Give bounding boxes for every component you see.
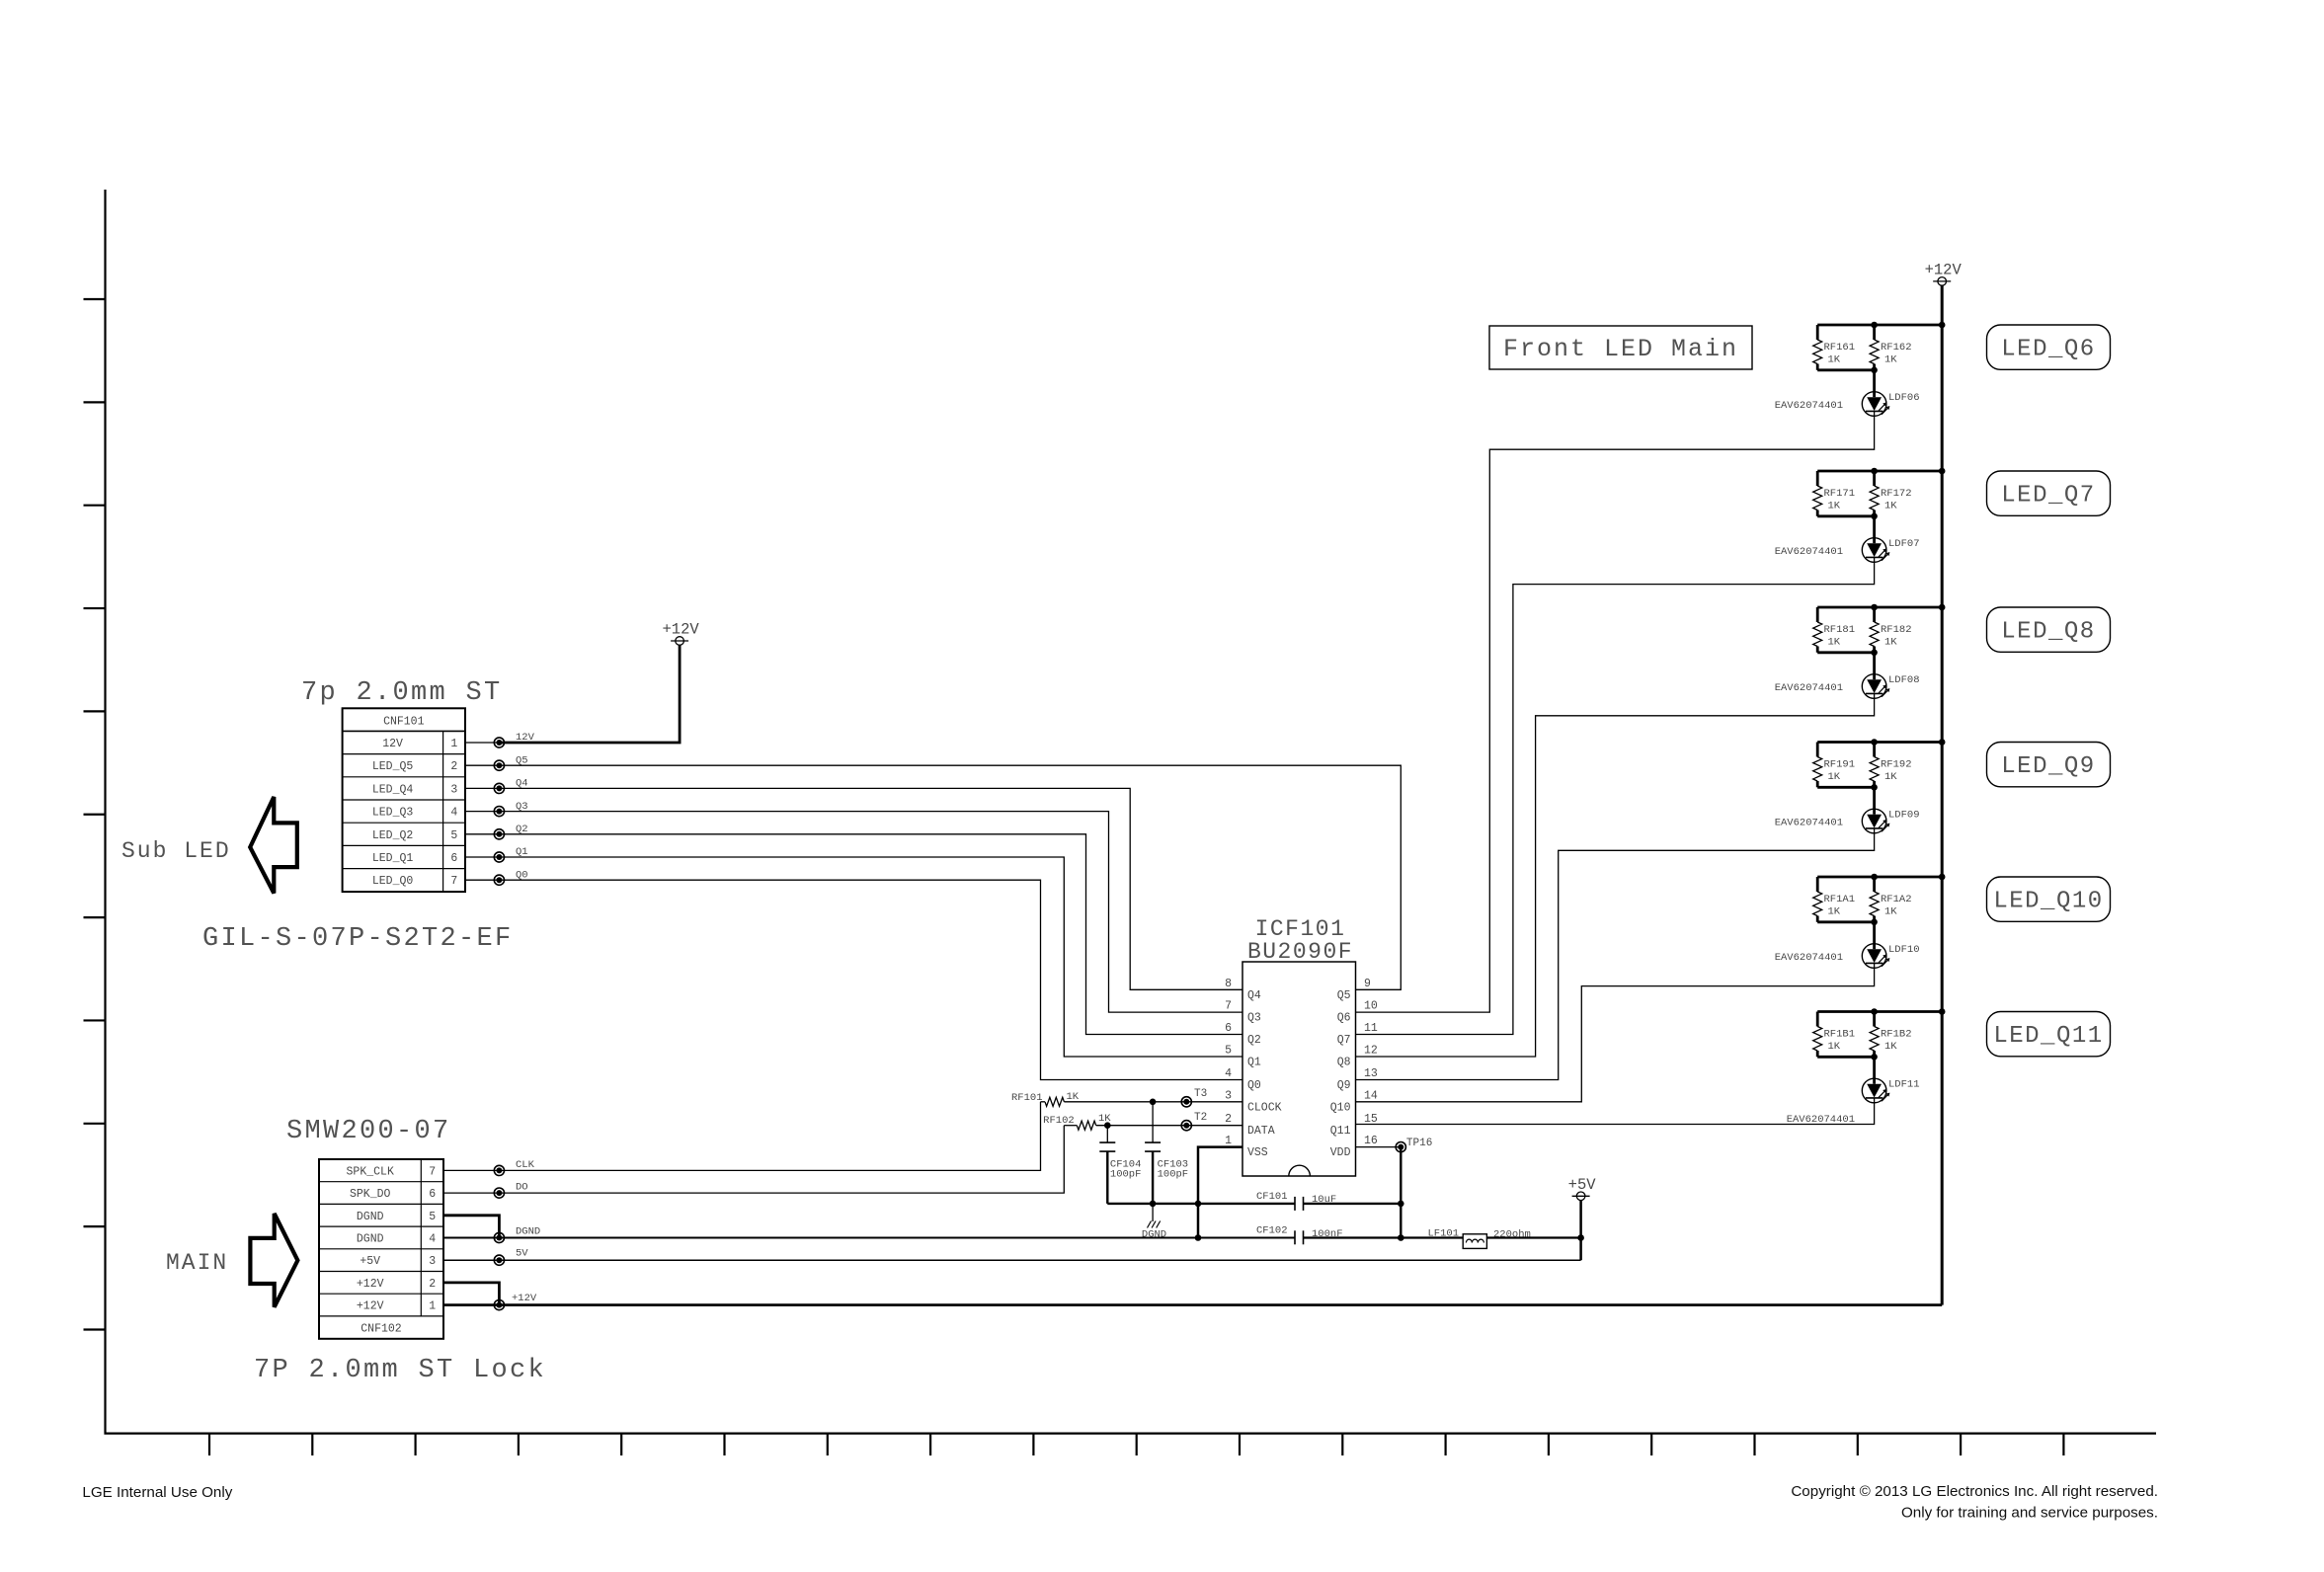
wire DGND [443, 1226, 1581, 1243]
svg-text:DGND: DGND [357, 1233, 384, 1246]
svg-text:Q6: Q6 [1337, 1012, 1351, 1025]
svg-text:Q1: Q1 [1247, 1057, 1261, 1069]
svg-text:LED_Q4: LED_Q4 [372, 783, 414, 796]
IC ICF101 BU2090F [1225, 916, 1378, 1176]
svg-text:DO: DO [516, 1182, 528, 1194]
capacitor CF104 100pF [1099, 1126, 1141, 1204]
svg-text:EAV62074401: EAV62074401 [1775, 546, 1843, 558]
svg-text:2: 2 [1225, 1113, 1232, 1126]
svg-text:LED_Q11: LED_Q11 [1993, 1023, 2103, 1050]
wire bus bar block LED_Q10 [1817, 874, 1945, 925]
svg-text:1: 1 [429, 1300, 436, 1313]
svg-text:16: 16 [1364, 1135, 1378, 1147]
svg-text:14: 14 [1364, 1089, 1378, 1102]
svg-text:LF101: LF101 [1427, 1227, 1459, 1239]
ground DGND [1142, 1204, 1166, 1241]
node LED_Q6 [1987, 325, 2111, 369]
svg-text:Only for training and service: Only for training and service purposes. [1901, 1505, 2158, 1522]
test point T2 [1181, 1112, 1207, 1131]
power +12V (CNF101 pin 1) [465, 621, 699, 748]
LED LDF07 [1775, 516, 1920, 563]
svg-text:1K: 1K [1884, 1041, 1897, 1053]
power +5V [1568, 1176, 1597, 1260]
svg-text:Q7: Q7 [1337, 1034, 1351, 1047]
resistor RF171 1K [1813, 471, 1855, 516]
svg-text:2: 2 [429, 1278, 436, 1291]
svg-text:Q1: Q1 [516, 846, 528, 858]
svg-text:1K: 1K [1884, 501, 1897, 512]
wire Q3 [465, 801, 1242, 1012]
svg-text:DGND: DGND [516, 1226, 540, 1238]
svg-text:Q9: Q9 [1337, 1079, 1351, 1092]
inductor LF101 220ohm [1427, 1227, 1583, 1248]
wire VSS pin1 [1195, 1147, 1242, 1241]
node LED_Q8 [1987, 607, 2111, 652]
svg-text:5V: 5V [516, 1248, 528, 1260]
svg-text:LDF06: LDF06 [1888, 392, 1920, 404]
svg-text:EAV62074401: EAV62074401 [1775, 818, 1843, 829]
svg-text:1: 1 [450, 738, 457, 750]
svg-text:4: 4 [429, 1233, 436, 1246]
svg-text:3: 3 [429, 1255, 436, 1268]
svg-text:100pF: 100pF [1110, 1169, 1142, 1181]
svg-text:LED_Q5: LED_Q5 [372, 760, 414, 773]
svg-text:RF182: RF182 [1881, 624, 1912, 636]
svg-text:4: 4 [1225, 1067, 1232, 1080]
svg-text:1K: 1K [1828, 771, 1841, 783]
svg-text:RF171: RF171 [1824, 488, 1856, 500]
wire Q5 [465, 754, 1401, 989]
wire CLK [443, 1102, 1041, 1176]
svg-text:VDD: VDD [1330, 1146, 1351, 1159]
svg-text:CF101: CF101 [1256, 1191, 1288, 1203]
wire bus bar block LED_Q6 [1817, 322, 1945, 373]
svg-text:1K: 1K [1884, 906, 1897, 918]
svg-text:TP16: TP16 [1406, 1138, 1432, 1149]
svg-text:+12V: +12V [357, 1278, 384, 1291]
svg-text:RF1A1: RF1A1 [1824, 894, 1856, 905]
wire bus bar block LED_Q8 [1817, 604, 1945, 656]
svg-text:4: 4 [450, 807, 457, 820]
svg-text:7: 7 [429, 1165, 436, 1178]
svg-text:1K: 1K [1884, 354, 1897, 366]
svg-text:1K: 1K [1828, 501, 1841, 512]
connector CNF101 7p 2.0mm ST [343, 708, 465, 892]
wire LDF06 cathode to IC [1356, 411, 1875, 1012]
svg-text:+12V: +12V [662, 621, 699, 639]
svg-text:LGE Internal Use Only: LGE Internal Use Only [82, 1484, 232, 1501]
svg-text:Q11: Q11 [1330, 1125, 1351, 1138]
svg-text:LDF08: LDF08 [1888, 674, 1920, 686]
svg-text:Front LED Main: Front LED Main [1503, 335, 1738, 363]
svg-text:+5V: +5V [1568, 1176, 1597, 1194]
svg-text:6: 6 [1225, 1022, 1232, 1035]
wire LDF10 cathode to IC [1356, 963, 1875, 1101]
resistor RF1A1 1K [1813, 877, 1855, 922]
svg-text:LED_Q1: LED_Q1 [372, 852, 414, 865]
svg-text:VSS: VSS [1247, 1146, 1268, 1159]
svg-text:DGND: DGND [357, 1211, 384, 1223]
capacitor CF102 100nF [1256, 1225, 1343, 1245]
svg-text:100pF: 100pF [1158, 1169, 1189, 1181]
label SMW200-07 [286, 1117, 451, 1146]
svg-text:13: 13 [1364, 1067, 1378, 1080]
arrow Sub LED [121, 797, 297, 894]
wire +12V [443, 1293, 1942, 1310]
svg-text:220ohm: 220ohm [1493, 1228, 1531, 1240]
svg-text:CF102: CF102 [1256, 1225, 1288, 1237]
svg-text:12V: 12V [382, 738, 403, 750]
svg-text:1K: 1K [1884, 637, 1897, 649]
connector CNF102 SMW200-07 [319, 1159, 443, 1339]
resistor RF181 1K [1813, 607, 1855, 653]
svg-text:1K: 1K [1828, 1041, 1841, 1053]
svg-text:7: 7 [1225, 1000, 1232, 1013]
svg-text:CNF102: CNF102 [361, 1322, 402, 1335]
svg-text:1K: 1K [1884, 771, 1897, 783]
svg-text:Q4: Q4 [516, 778, 528, 790]
svg-text:3: 3 [450, 783, 457, 796]
svg-text:6: 6 [429, 1188, 436, 1201]
svg-text:5: 5 [429, 1211, 436, 1223]
svg-text:+12V: +12V [1925, 261, 1963, 278]
svg-text:LED_Q0: LED_Q0 [372, 875, 414, 888]
svg-text:12V: 12V [516, 732, 535, 744]
resistor RF1A2 1K [1870, 877, 1911, 922]
wire +12V jog pin2 [443, 1283, 499, 1305]
svg-text:RF162: RF162 [1881, 342, 1912, 354]
wire DATA [1096, 1122, 1242, 1129]
svg-text:CLOCK: CLOCK [1247, 1101, 1282, 1114]
svg-text:LED_Q8: LED_Q8 [2001, 619, 2095, 646]
wire bus bar block LED_Q9 [1817, 739, 1945, 790]
svg-text:LDF11: LDF11 [1888, 1079, 1920, 1091]
LED LDF08 [1775, 653, 1920, 699]
svg-text:Q0: Q0 [516, 869, 528, 881]
note copyright [1791, 1483, 2158, 1522]
svg-text:RF102: RF102 [1043, 1115, 1075, 1127]
svg-text:EAV62074401: EAV62074401 [1775, 400, 1843, 412]
svg-text:Q5: Q5 [1337, 989, 1351, 1002]
wire CLOCK [1064, 1099, 1242, 1106]
svg-text:3: 3 [1225, 1089, 1232, 1102]
note Front LED Main [1489, 326, 1752, 369]
svg-text:Q4: Q4 [1247, 989, 1261, 1002]
LED LDF09 [1775, 787, 1920, 833]
svg-text:LED_Q6: LED_Q6 [2001, 337, 2095, 363]
svg-text:LED_Q3: LED_Q3 [372, 807, 414, 820]
resistor RF1B1 1K [1813, 1012, 1855, 1058]
svg-text:RF1A2: RF1A2 [1881, 894, 1912, 905]
svg-text:5: 5 [1225, 1045, 1232, 1058]
svg-text:RF1B2: RF1B2 [1881, 1029, 1912, 1041]
svg-text:RF161: RF161 [1824, 342, 1856, 354]
resistor RF101 1K [1011, 1091, 1080, 1106]
resistor RF162 1K [1870, 325, 1911, 370]
svg-text:1: 1 [1225, 1135, 1232, 1147]
svg-text:LDF07: LDF07 [1888, 538, 1920, 550]
svg-text:Q2: Q2 [1247, 1034, 1261, 1047]
svg-text:LED_Q10: LED_Q10 [1993, 889, 2103, 915]
wire LDF11 cathode to IC pin15 [1356, 1098, 1875, 1125]
svg-text:Q8: Q8 [1337, 1057, 1351, 1069]
svg-text:1K: 1K [1828, 906, 1841, 918]
resistor RF182 1K [1870, 607, 1911, 653]
wire Q2 [465, 824, 1242, 1035]
svg-text:7: 7 [450, 875, 457, 888]
svg-text:T2: T2 [1194, 1112, 1207, 1124]
resistor RF172 1K [1870, 471, 1911, 516]
wire Q1 [465, 846, 1242, 1057]
svg-text:1K: 1K [1828, 637, 1841, 649]
resistor RF192 1K [1870, 743, 1911, 788]
wire LDF07 cathode to IC [1356, 557, 1875, 1034]
wire Q4 [465, 778, 1242, 990]
resistor RF161 1K [1813, 325, 1855, 370]
label 7P 2.0mm ST Lock [254, 1356, 546, 1385]
svg-text:LDF09: LDF09 [1888, 810, 1920, 822]
svg-text:Q5: Q5 [516, 754, 528, 766]
svg-text:Sub LED: Sub LED [121, 838, 231, 864]
svg-text:+5V: +5V [360, 1255, 380, 1268]
svg-text:EAV62074401: EAV62074401 [1787, 1114, 1855, 1126]
svg-text:5: 5 [450, 829, 457, 842]
svg-text:SPK_CLK: SPK_CLK [347, 1165, 394, 1178]
node LED_Q10 [1987, 877, 2111, 921]
svg-text:9: 9 [1364, 978, 1371, 990]
svg-text:GIL-S-07P-S2T2-EF: GIL-S-07P-S2T2-EF [202, 924, 514, 954]
resistor RF191 1K [1813, 743, 1855, 788]
wire LDF08 cathode to IC [1356, 693, 1875, 1057]
label GIL-S-07P-S2T2-EF [202, 924, 514, 954]
svg-text:Q0: Q0 [1247, 1079, 1261, 1092]
svg-text:1K: 1K [1828, 354, 1841, 366]
wire bus bar block LED_Q11 [1817, 1008, 1945, 1060]
resistor RF102 1K [1043, 1113, 1111, 1130]
wire DGND jog pin5 [443, 1216, 499, 1238]
wire LDF09 cathode to IC [1356, 828, 1875, 1080]
svg-text:100nF: 100nF [1312, 1228, 1343, 1240]
svg-text:BU2090F: BU2090F [1247, 939, 1353, 965]
LED LDF11 [1787, 1057, 1920, 1126]
svg-text:1K: 1K [1067, 1091, 1080, 1103]
wire DO [443, 1126, 1064, 1199]
svg-text:SPK_DO: SPK_DO [350, 1188, 391, 1201]
svg-text:RF181: RF181 [1824, 624, 1856, 636]
svg-text:RF101: RF101 [1011, 1092, 1043, 1104]
power +12V rail [1925, 261, 1963, 1304]
note LGE Internal Use Only [82, 1484, 232, 1501]
svg-text:RF1B1: RF1B1 [1824, 1029, 1856, 1041]
node LED_Q9 [1987, 743, 2111, 787]
svg-text:SMW200-07: SMW200-07 [286, 1117, 451, 1146]
svg-text:+12V: +12V [357, 1300, 384, 1313]
svg-text:6: 6 [450, 852, 457, 865]
wire bus bar block LED_Q7 [1817, 468, 1945, 519]
test point TP16 [1356, 1138, 1433, 1241]
svg-text:LDF10: LDF10 [1888, 944, 1920, 956]
svg-text:CNF101: CNF101 [383, 716, 425, 729]
svg-text:RF192: RF192 [1881, 759, 1912, 771]
svg-text:2: 2 [450, 760, 457, 773]
resistor RF1B2 1K [1870, 1012, 1911, 1058]
arrow MAIN [166, 1214, 297, 1307]
svg-text:RF172: RF172 [1881, 488, 1912, 500]
svg-text:DATA: DATA [1247, 1125, 1275, 1138]
test point T3 [1181, 1088, 1207, 1107]
capacitor CF101 10uF [1107, 1191, 1403, 1211]
svg-text:LED_Q7: LED_Q7 [2001, 483, 2095, 510]
svg-text:DGND: DGND [1142, 1229, 1166, 1241]
wire 5V [443, 1248, 1581, 1266]
svg-text:7P 2.0mm ST Lock: 7P 2.0mm ST Lock [254, 1356, 546, 1385]
svg-text:8: 8 [1225, 978, 1232, 990]
LED LDF06 [1775, 370, 1920, 417]
node LED_Q7 [1987, 471, 2111, 515]
svg-text:11: 11 [1364, 1022, 1378, 1035]
svg-text:+12V: +12V [512, 1293, 537, 1304]
capacitor CF103 100pF [1145, 1102, 1188, 1204]
label 7p 2.0mm ST [301, 678, 503, 708]
svg-text:12: 12 [1364, 1045, 1378, 1058]
svg-text:10uF: 10uF [1312, 1194, 1336, 1206]
svg-text:RF191: RF191 [1824, 759, 1856, 771]
wire Q0 [465, 869, 1242, 1079]
node LED_Q11 [1987, 1012, 2111, 1057]
svg-text:EAV62074401: EAV62074401 [1775, 682, 1843, 694]
svg-text:EAV62074401: EAV62074401 [1775, 952, 1843, 964]
svg-text:Copyright © 2013 LG Electronic: Copyright © 2013 LG Electronics Inc. All… [1791, 1483, 2158, 1500]
svg-text:7p 2.0mm ST: 7p 2.0mm ST [301, 678, 503, 708]
svg-text:LED_Q9: LED_Q9 [2001, 753, 2095, 780]
svg-text:CLK: CLK [516, 1159, 535, 1171]
svg-text:T3: T3 [1194, 1088, 1207, 1100]
svg-text:MAIN: MAIN [166, 1250, 228, 1276]
svg-text:Q3: Q3 [516, 801, 528, 813]
svg-text:LED_Q2: LED_Q2 [372, 829, 414, 842]
svg-text:10: 10 [1364, 1000, 1378, 1013]
svg-text:Q3: Q3 [1247, 1012, 1261, 1025]
LED LDF10 [1775, 922, 1920, 969]
svg-text:Q2: Q2 [516, 824, 528, 835]
svg-text:Q10: Q10 [1330, 1101, 1351, 1114]
